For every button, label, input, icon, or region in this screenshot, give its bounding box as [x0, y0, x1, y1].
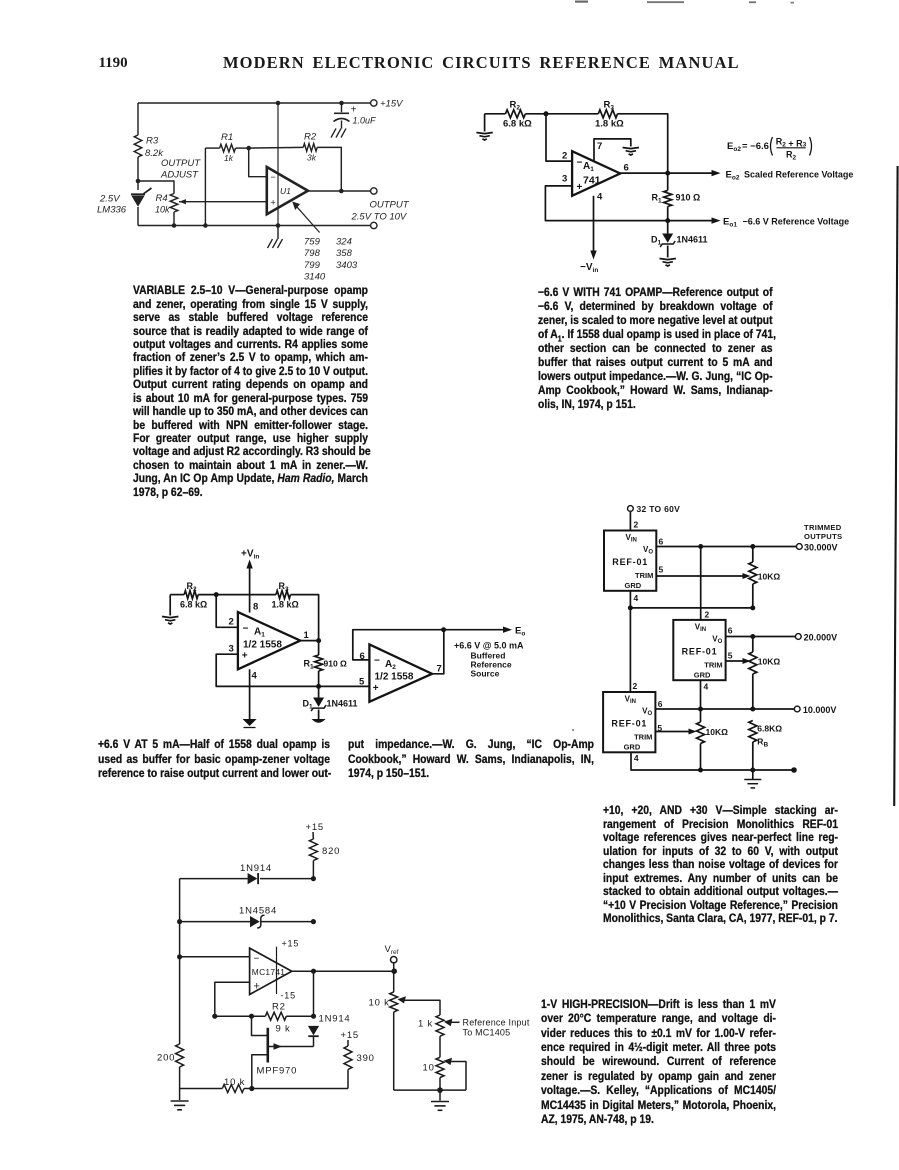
svg-text:+: + — [373, 683, 379, 694]
svg-text:10KΩ: 10KΩ — [706, 727, 729, 737]
svg-text:R3: R3 — [146, 136, 159, 147]
svg-text:6.8 kΩ: 6.8 kΩ — [503, 119, 532, 130]
svg-text:+15: +15 — [341, 1030, 360, 1041]
svg-text:Reference Input: Reference Input — [463, 1018, 530, 1028]
svg-text:A2: A2 — [385, 659, 396, 671]
svg-text:VIN: VIN — [626, 533, 637, 544]
svg-text:+Vin: +Vin — [241, 549, 259, 561]
svg-text:+: + — [577, 182, 583, 193]
svg-text:5: 5 — [728, 651, 733, 661]
svg-text:+15: +15 — [306, 822, 325, 833]
svg-text:3: 3 — [562, 174, 567, 185]
svg-text:1.8 kΩ: 1.8 kΩ — [272, 600, 299, 610]
svg-text:5: 5 — [359, 677, 365, 688]
svg-text:RB: RB — [757, 737, 768, 749]
svg-text:3: 3 — [229, 644, 234, 655]
svg-text:2: 2 — [705, 610, 710, 620]
svg-text:2: 2 — [633, 681, 638, 691]
svg-text:3k: 3k — [307, 153, 317, 163]
svg-text:324: 324 — [336, 237, 352, 248]
svg-text:+: + — [242, 651, 248, 662]
svg-text:D1: D1 — [651, 235, 662, 247]
svg-text:Eo2: Eo2 — [726, 170, 740, 182]
svg-text:30.000V: 30.000V — [804, 543, 838, 553]
svg-text:10 k: 10 k — [224, 1077, 245, 1088]
svg-text:1k: 1k — [224, 153, 234, 163]
svg-text:200: 200 — [157, 1053, 175, 1064]
svg-text:3403: 3403 — [336, 260, 358, 271]
svg-text:10.000V: 10.000V — [803, 705, 837, 715]
svg-text:R2: R2 — [272, 1002, 286, 1013]
svg-text:2.5V: 2.5V — [99, 194, 121, 205]
svg-text:20.000V: 20.000V — [804, 633, 838, 643]
svg-text:4: 4 — [634, 753, 639, 763]
svg-text:R1: R1 — [652, 193, 663, 205]
svg-text:U1: U1 — [280, 186, 291, 196]
svg-text:Eo2: Eo2 — [727, 141, 741, 153]
svg-text:358: 358 — [336, 248, 353, 259]
svg-text:TRIM: TRIM — [634, 733, 652, 742]
svg-text:= −6.6: = −6.6 — [742, 141, 769, 152]
svg-text:1.0uF: 1.0uF — [353, 116, 377, 126]
svg-text:R2: R2 — [187, 581, 198, 593]
svg-text:1: 1 — [304, 630, 310, 641]
svg-text:10 k: 10 k — [369, 998, 390, 1009]
svg-text:1N4611: 1N4611 — [327, 699, 358, 709]
svg-text:799: 799 — [304, 260, 321, 271]
svg-text:VO: VO — [642, 707, 652, 718]
svg-text:798: 798 — [304, 248, 321, 259]
svg-text:6: 6 — [658, 699, 663, 709]
svg-text:4: 4 — [634, 593, 639, 603]
svg-text:2: 2 — [634, 520, 639, 530]
svg-text:3140: 3140 — [304, 272, 326, 283]
svg-text:R2: R2 — [510, 100, 521, 112]
svg-text:REF-01: REF-01 — [682, 646, 718, 656]
svg-text:6.8KΩ: 6.8KΩ — [757, 724, 782, 734]
svg-text:1/2 1558: 1/2 1558 — [375, 672, 414, 683]
svg-text:OUTPUT: OUTPUT — [370, 200, 410, 211]
svg-text:D1: D1 — [303, 699, 314, 711]
svg-text:910 Ω: 910 Ω — [324, 659, 348, 669]
svg-text:1.8 kΩ: 1.8 kΩ — [595, 119, 624, 130]
svg-text:2: 2 — [562, 151, 567, 162]
svg-text:R1: R1 — [304, 659, 315, 671]
svg-text:+: + — [351, 105, 357, 116]
svg-text:A1: A1 — [254, 627, 265, 639]
svg-text:1/2 1558: 1/2 1558 — [243, 640, 282, 651]
svg-text:10k: 10k — [155, 205, 170, 215]
svg-text:−: − — [271, 172, 276, 182]
svg-text:Eo1: Eo1 — [723, 217, 737, 229]
svg-text:A1: A1 — [583, 161, 594, 173]
svg-text:MPF970: MPF970 — [257, 1066, 298, 1077]
svg-text:4: 4 — [704, 682, 709, 692]
svg-text:1N914: 1N914 — [240, 863, 272, 874]
svg-text:7: 7 — [597, 141, 602, 152]
svg-text:LM336: LM336 — [97, 205, 127, 216]
svg-text:Scaled Reference Voltage: Scaled Reference Voltage — [744, 170, 853, 180]
svg-text:1 k: 1 k — [418, 1019, 433, 1030]
svg-text:−: − — [577, 158, 583, 169]
svg-text:32 TO 60V: 32 TO 60V — [637, 504, 681, 514]
svg-text:820: 820 — [322, 846, 340, 857]
svg-text:4: 4 — [597, 192, 603, 203]
svg-text:2.5V TO 10V: 2.5V TO 10V — [351, 212, 408, 223]
svg-text:+15V: +15V — [380, 99, 404, 110]
svg-text:TRIM: TRIM — [635, 571, 653, 580]
svg-text:REF-01: REF-01 — [612, 557, 648, 567]
svg-text:+15: +15 — [282, 939, 300, 949]
svg-text:−: − — [374, 656, 380, 667]
svg-text:R3: R3 — [604, 100, 615, 112]
svg-text:759: 759 — [304, 237, 321, 248]
svg-text:R2 + R3: R2 + R3 — [776, 137, 807, 149]
svg-text:R4: R4 — [156, 193, 168, 204]
svg-text:-15: -15 — [281, 991, 296, 1001]
svg-text:OUTPUT: OUTPUT — [161, 158, 201, 169]
svg-text:REF-01: REF-01 — [611, 719, 647, 729]
svg-text:Eo: Eo — [515, 626, 525, 638]
svg-text:VO: VO — [712, 634, 722, 645]
svg-text:910 Ω: 910 Ω — [676, 193, 701, 203]
svg-text:+6.6 V @ 5.0 mA: +6.6 V @ 5.0 mA — [454, 641, 524, 651]
svg-text:VIN: VIN — [625, 695, 636, 706]
svg-text:4: 4 — [252, 671, 258, 682]
svg-text:Vref: Vref — [385, 944, 399, 956]
svg-text:1N4584: 1N4584 — [239, 906, 277, 917]
svg-text:R2: R2 — [786, 150, 797, 162]
svg-text:R2: R2 — [304, 132, 317, 143]
svg-text:R1: R1 — [221, 132, 233, 143]
svg-text:390: 390 — [357, 1053, 375, 1064]
svg-text:2: 2 — [229, 617, 234, 628]
svg-text:GRD: GRD — [694, 670, 711, 679]
svg-text:−: − — [254, 954, 260, 965]
svg-text:+: + — [271, 198, 276, 208]
svg-text:−6.6 V Reference Voltage: −6.6 V Reference Voltage — [743, 217, 850, 227]
svg-text:To MC1405: To MC1405 — [463, 1028, 511, 1038]
svg-text:6: 6 — [624, 163, 629, 174]
svg-text:10KΩ: 10KΩ — [758, 657, 781, 667]
svg-text:1N4611: 1N4611 — [677, 235, 708, 245]
svg-text:−Vin: −Vin — [580, 262, 598, 274]
svg-text:VO: VO — [643, 545, 653, 556]
svg-text:−: − — [243, 624, 249, 635]
svg-text:TRIM: TRIM — [704, 660, 722, 669]
svg-text:1N914: 1N914 — [319, 1014, 351, 1025]
svg-text:8: 8 — [253, 602, 258, 613]
svg-text:OUTPUTS: OUTPUTS — [804, 532, 842, 541]
svg-text:6: 6 — [659, 537, 664, 547]
svg-text:VIN: VIN — [695, 622, 706, 633]
svg-text:GRD: GRD — [624, 743, 641, 752]
svg-text:ADJUST: ADJUST — [160, 170, 199, 181]
svg-text:Source: Source — [471, 669, 500, 679]
svg-text:TRIMMED: TRIMMED — [804, 523, 842, 532]
svg-text:10: 10 — [423, 1063, 435, 1074]
svg-text:R3: R3 — [279, 581, 290, 593]
svg-text:10KΩ: 10KΩ — [758, 572, 781, 582]
svg-text:6: 6 — [728, 626, 733, 636]
svg-text:GRD: GRD — [625, 581, 642, 590]
svg-text:MC1741: MC1741 — [252, 967, 285, 977]
svg-text:6.8 kΩ: 6.8 kΩ — [180, 600, 207, 610]
svg-text:741: 741 — [583, 175, 601, 187]
svg-text:9 k: 9 k — [276, 1024, 291, 1035]
svg-text:+: + — [254, 981, 260, 993]
svg-text:7: 7 — [437, 664, 442, 675]
svg-text:5: 5 — [659, 565, 664, 575]
